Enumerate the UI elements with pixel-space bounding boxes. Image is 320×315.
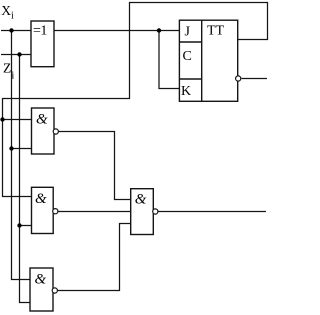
inversion bubble G1 — [53, 129, 58, 134]
svg-text:i: i — [12, 70, 15, 81]
wire Z vertical bus — [20, 55, 31, 303]
wire X_i input — [1, 30, 32, 32]
svg-text:X: X — [1, 3, 11, 18]
NAND gate G3 body — [30, 268, 53, 311]
NAND gate G2 body — [32, 187, 54, 233]
wire G2 output to G4 — [58, 211, 131, 213]
inversion bubble FF output — [236, 76, 241, 81]
inversion bubble G3 — [52, 288, 57, 293]
svg-text:=1: =1 — [33, 23, 47, 38]
wire Z_i input — [1, 54, 32, 56]
inversion bubble G2 — [53, 209, 58, 214]
svg-text:&: & — [36, 112, 48, 128]
svg-text:K: K — [181, 84, 191, 99]
svg-text:&: & — [35, 271, 47, 287]
svg-text:Z: Z — [3, 61, 11, 76]
svg-text:C: C — [183, 49, 192, 64]
junction J/K node — [157, 28, 161, 32]
junction Z wire — [17, 52, 21, 56]
JK flip-flop input column divider — [201, 20, 203, 101]
junction feedback to G1 — [0, 117, 4, 121]
svg-text:&: & — [135, 191, 147, 207]
wire FF inverted output — [242, 78, 268, 80]
svg-text:&: & — [35, 191, 47, 207]
junction X to G1 — [9, 146, 13, 150]
wire G4 output — [158, 211, 266, 213]
wire G3 output to G4 — [58, 224, 131, 291]
wire XOR output to J input — [54, 30, 179, 32]
NAND gate G4 body — [131, 189, 154, 235]
wire G1 output to G4 — [59, 132, 131, 200]
junction Z to G2 — [17, 223, 21, 227]
NAND gate G1 body — [32, 108, 55, 154]
svg-text:J: J — [185, 25, 191, 40]
wire X vertical bus — [12, 31, 31, 280]
wire K input drop — [159, 31, 179, 89]
wire G1 input from feedback — [3, 119, 32, 121]
wire G1 input from X — [12, 148, 32, 150]
junction X wire — [9, 28, 13, 32]
JK flip-flop J/C divider — [179, 41, 201, 43]
inversion bubble G4 — [153, 209, 158, 214]
JK flip-flop TT body — [179, 20, 237, 101]
wire G2 input from Z — [20, 225, 32, 227]
wire Q feedback loop — [3, 3, 268, 197]
svg-text:i: i — [11, 11, 14, 22]
JK flip-flop C/K divider — [179, 78, 201, 80]
svg-text:TT: TT — [207, 24, 225, 39]
XOR gate U1 body — [31, 21, 54, 67]
